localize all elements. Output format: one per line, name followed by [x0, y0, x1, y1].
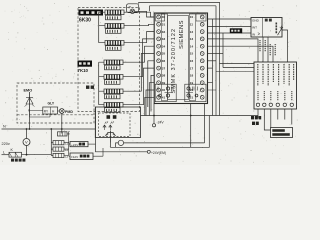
svg-text:L1: L1 — [65, 142, 69, 146]
transformer winding T1b — [53, 141, 69, 146]
breaker label (CJK smudge) — [11, 159, 25, 162]
bed-board label (CJK smudge) — [86, 86, 94, 89]
wire U2 pin to connector a — [262, 37, 264, 62]
svg-text:18: 18 — [190, 74, 194, 78]
U1 right number strip frame — [189, 14, 195, 101]
indicator lamp PMD — [59, 109, 73, 114]
N rail — [2, 125, 96, 130]
svg-text:15: 15 — [190, 52, 194, 56]
J1 terminal leads — [258, 109, 292, 130]
wire U1 to radar IN — [208, 32, 252, 34]
rotary selector S3 — [105, 41, 124, 51]
svg-text:34: 34 — [162, 44, 166, 48]
U1 top-right pin group box — [196, 14, 206, 21]
wire U1 to radar INT — [208, 25, 252, 27]
svg-text:EMO: EMO — [24, 89, 33, 93]
voltmeter V — [23, 129, 30, 155]
vertical bus B — [215, 26, 217, 115]
svg-text:37: 37 — [162, 66, 166, 70]
L rail — [2, 150, 10, 154]
wire IC bottom to rail — [153, 104, 155, 116]
selector panel dashed enclosure — [78, 8, 140, 112]
svg-text:GLY: GLY — [48, 102, 55, 106]
rotary selector S1 — [105, 10, 124, 20]
U2 antenna symbol — [278, 26, 284, 36]
wire lamp top over IC — [139, 2, 220, 115]
wire lamp to IC pin1 — [135, 11, 155, 17]
svg-text:10: 10 — [190, 15, 194, 19]
junction L/V — [26, 154, 28, 156]
triac Q2 — [25, 92, 35, 117]
wire U1 pin5 to connector — [208, 46, 274, 62]
U1 bottom-right pin group box — [185, 84, 206, 102]
phototransistor Q1 — [106, 131, 116, 143]
svg-text:SIEMENS: SIEMENS — [179, 20, 185, 49]
wire upper second — [150, 6, 217, 27]
vertical bus A — [212, 19, 214, 116]
svg-text:31: 31 — [162, 23, 166, 27]
wire bundle selectors to IC pins — [124, 12, 154, 17]
+-12V supply box — [70, 153, 93, 160]
wire U1 pin8 to bus — [208, 67, 213, 69]
U1 left pin numbers — [162, 15, 166, 99]
wire triac to N — [29, 117, 31, 129]
LED labels red/green (CJK smudge) — [107, 115, 117, 119]
long rail +24V distribution — [141, 115, 259, 117]
U1 left number strip frame — [161, 14, 167, 101]
svg-text:+24V: +24V — [71, 143, 79, 147]
U1 rotated type text — [171, 20, 185, 93]
J1 terminal labels (vertical) — [258, 91, 292, 101]
svg-text:-24V: -24V — [157, 121, 165, 125]
transformer winding T1d — [53, 153, 69, 158]
svg-text:36: 36 — [162, 59, 166, 63]
svg-text:16: 16 — [190, 59, 194, 63]
selector common bus bottom — [99, 62, 104, 104]
svg-text:N: N — [3, 125, 6, 129]
wire +24V(EM) feed — [96, 107, 148, 152]
svg-text:+24V(EM): +24V(EM) — [151, 151, 166, 155]
svg-text:INT: INT — [252, 25, 257, 29]
oscilloscope box — [271, 128, 293, 138]
LED D2 — [109, 121, 114, 130]
wire circle to mesh — [124, 142, 205, 144]
U1 right pin numbers — [190, 15, 194, 99]
label: radar head (black) — [230, 28, 242, 33]
svg-text:12: 12 — [190, 30, 194, 34]
wire PMD to N — [61, 113, 63, 133]
wire transistor to mesh — [111, 116, 210, 148]
label: alarm power (CJK smudge) — [251, 116, 261, 125]
transformer winding T1a — [58, 132, 68, 136]
rotary selector S5 — [104, 75, 123, 85]
node on rail — [153, 115, 155, 117]
wire bus to connector row2 — [223, 67, 254, 69]
relay RY/H box — [43, 107, 58, 114]
svg-text:13: 13 — [190, 37, 194, 41]
wire U1 to radar GND — [208, 18, 252, 20]
relay drive circle — [118, 140, 123, 145]
terminal block J1 — [254, 62, 297, 109]
+24V supply box — [70, 142, 88, 147]
U1 left pin column — [157, 15, 161, 99]
LED indicator dashed box — [99, 113, 131, 137]
wire 24V box to EM rail — [88, 143, 96, 145]
svg-text:7K10: 7K10 — [78, 68, 89, 73]
svg-text:GND: GND — [252, 19, 260, 23]
wire U2 pin to connector b — [267, 37, 269, 62]
vertical bus C — [222, 33, 224, 68]
secondary feed bus — [51, 129, 53, 156]
wire EMO internal — [30, 111, 51, 118]
selector common bus top — [99, 12, 105, 43]
EMO inner dashed divider — [17, 114, 94, 116]
U1 right pin column — [200, 15, 204, 99]
svg-text:L2: L2 — [65, 148, 69, 152]
svg-text:35: 35 — [162, 52, 166, 56]
U2 pin tiny labels — [260, 40, 275, 56]
svg-text:L3: L3 — [65, 154, 69, 158]
controller board U1 (SIEMENS) — [154, 13, 207, 104]
svg-text:±12V: ±12V — [71, 155, 79, 159]
svg-text:IN: IN — [252, 32, 255, 36]
svg-text:33: 33 — [162, 37, 166, 41]
display driver box — [95, 107, 140, 138]
svg-text:6K30: 6K30 — [79, 18, 91, 24]
U2 internal vertical text — [275, 23, 277, 34]
J1 terminals — [256, 103, 293, 106]
wire bus to connector row3 — [216, 71, 254, 73]
svg-text:L: L — [3, 150, 5, 154]
U2 antenna label (CJK smudge) — [265, 19, 272, 22]
wire to 24V supply — [69, 143, 70, 145]
wire U1 pin4 to connector — [208, 39, 259, 62]
wire relay to PMD — [58, 110, 60, 112]
svg-text:32: 32 — [162, 30, 166, 34]
svg-text:17: 17 — [190, 66, 194, 70]
wire bus to connector row1 — [220, 63, 255, 65]
breaker K — [9, 148, 51, 157]
label: distance select (black) — [79, 10, 104, 16]
rotary selector S6 — [104, 89, 123, 99]
svg-text:40: 40 — [162, 88, 166, 92]
-24V tap terminal — [152, 116, 164, 127]
wire 12V box right — [93, 148, 103, 156]
label: speed select (black) — [78, 61, 93, 67]
wire IC lower-left pins — [148, 61, 154, 107]
svg-text:38: 38 — [162, 74, 166, 78]
wire IC bottom to lower mesh b — [204, 104, 206, 143]
transformer winding T1c — [53, 147, 69, 152]
svg-text:14: 14 — [190, 44, 194, 48]
svg-text:PMD: PMD — [65, 110, 73, 114]
LED D1 — [103, 121, 108, 130]
heater dashed enclosure EMO — [17, 83, 94, 123]
svg-text:11: 11 — [190, 23, 194, 27]
svg-text:30: 30 — [162, 15, 166, 19]
indicator lamp P — [127, 4, 139, 14]
J1 vertical signal names (CJK smudge columns) — [258, 64, 294, 86]
U1 bottom-left pin group box — [155, 84, 176, 102]
svg-text:SMMK 37-200/7122: SMMK 37-200/7122 — [171, 28, 177, 94]
wire U1 pin6 to bus — [208, 53, 224, 55]
microwave radar module U2 — [251, 18, 282, 38]
svg-text:220v: 220v — [2, 142, 10, 146]
node rail/bus junction — [190, 115, 192, 117]
rotary selector S4 — [104, 60, 123, 70]
svg-text:V: V — [25, 140, 28, 145]
rotary selector S2 — [105, 24, 124, 34]
U1 top-left pin group box — [156, 14, 165, 21]
+24V(EM) terminal — [147, 150, 166, 155]
winding output bus — [64, 132, 70, 157]
wire IC bottom to lower mesh a — [190, 104, 192, 148]
rotary selector S7 — [104, 103, 123, 113]
wire U1 pin7 to bus — [208, 60, 217, 62]
svg-text:41: 41 — [162, 96, 166, 100]
